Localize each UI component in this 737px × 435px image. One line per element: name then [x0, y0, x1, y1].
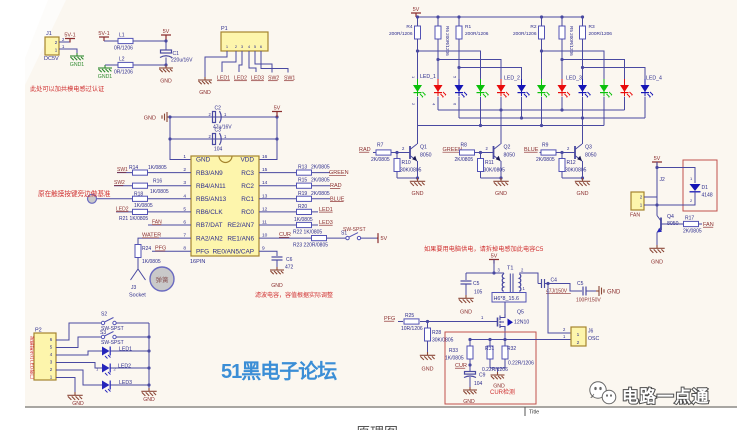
LED D2 — [434, 79, 447, 98]
svg-text:FAN: FAN — [630, 213, 640, 219]
svg-text:R24: R24 — [142, 246, 151, 252]
capacitor C4 47J/150V — [538, 278, 571, 295]
transformer T1 — [492, 266, 526, 303]
svg-text:R11: R11 — [485, 160, 494, 166]
svg-text:GND: GND — [144, 116, 156, 122]
wire LED5 cathode — [500, 97, 502, 144]
svg-text:GND: GND — [412, 191, 424, 197]
node CUR — [468, 363, 471, 366]
net label LED3 (P1) — [251, 76, 264, 82]
svg-text:RB3/AN9: RB3/AN9 — [196, 170, 223, 177]
wire T1 secondary to C4 — [519, 273, 538, 284]
svg-text:200R/1206: 200R/1206 — [465, 31, 489, 37]
resistor R31 0.22R/1206 — [485, 346, 494, 359]
ground GND (Q3) — [575, 178, 590, 197]
svg-text:0R/1206: 0R/1206 — [114, 70, 133, 76]
ground GND1 (at L2, green) — [98, 65, 113, 80]
net label LED1 (P1) — [217, 76, 230, 82]
wire anode column R6 — [437, 39, 439, 79]
wire R24 to socket — [137, 258, 139, 270]
svg-text:RC0: RC0 — [241, 209, 254, 216]
wire collector Q1 — [417, 143, 419, 145]
wire U1 pin6 (FAN) — [148, 224, 191, 226]
svg-text:原在触摸按键旁边做基准: 原在触摸按键旁边做基准 — [38, 189, 111, 198]
svg-text:RC2: RC2 — [241, 183, 254, 190]
svg-text:J1: J1 — [46, 31, 52, 37]
wire rail to R2 — [541, 17, 543, 26]
net label LED2 — [116, 206, 129, 212]
wire cathode bus line3 (to Q1) — [418, 125, 605, 127]
node rail R1 — [457, 15, 460, 18]
svg-text:Q1: Q1 — [420, 145, 427, 151]
ground GND (Q2) — [493, 178, 508, 197]
svg-text:8050: 8050 — [504, 153, 516, 159]
wire LED7 cathode — [541, 97, 543, 126]
svg-text:电路一点通: 电路一点通 — [622, 386, 710, 406]
touch spring (弹簧) — [150, 267, 174, 291]
wire R28 top/bottom — [427, 322, 429, 329]
ground GND (C5b, right facing) — [596, 286, 621, 296]
svg-text:R3: R3 — [589, 24, 595, 30]
svg-text:VDD: VDD — [241, 157, 255, 164]
connector J2 FAN — [630, 192, 644, 219]
svg-text:L1: L1 — [119, 33, 125, 39]
svg-text:Title: Title — [529, 410, 539, 416]
svg-text:2K/0805: 2K/0805 — [311, 178, 330, 184]
svg-text:R4: R4 — [406, 24, 412, 30]
svg-text:C4: C4 — [551, 278, 558, 284]
wire U1 pin10 (CUR) to switch — [259, 237, 346, 239]
wire U1 pin2 (SW1) — [117, 172, 191, 174]
wire P1 pin2 to LED1 — [222, 51, 236, 72]
wire 5V-1 to L1 — [104, 40, 118, 42]
svg-text:原理图: 原理图 — [356, 425, 398, 431]
wire P2 pin2 to LED3 — [56, 370, 102, 385]
net label SW1 (P1) — [284, 76, 295, 82]
node cathode junction — [499, 108, 502, 111]
svg-text:GND1: GND1 — [98, 74, 113, 80]
wire R10 top — [396, 153, 398, 159]
node rail R3 — [581, 15, 584, 18]
op-amp U1 (MCU 16PIN) — [190, 156, 259, 265]
wire anode column R5 — [561, 39, 563, 79]
wire L2 to GND node — [133, 64, 166, 66]
svg-text:GND: GND — [196, 157, 211, 164]
wire right vertical to pin16 — [259, 117, 277, 160]
resistor R28 30K/0805 — [425, 328, 454, 344]
wire anode column R2 — [541, 39, 543, 79]
resistor R6 200R/1206 — [435, 26, 450, 56]
svg-text:LED2: LED2 — [118, 364, 131, 370]
net label RAD — [330, 183, 342, 189]
wire U1 pin7 (WATER) to R24 — [138, 238, 191, 245]
capacitor C1 220u/16V — [160, 50, 193, 64]
wire C4 node down to J6 — [546, 282, 549, 285]
svg-text:弹簧: 弹簧 — [156, 275, 170, 284]
node gate/R28 — [426, 320, 429, 323]
wire emitter to ground — [417, 161, 419, 178]
net label SW2 (P1) — [268, 76, 279, 82]
title block tick — [524, 407, 526, 416]
resistor R16 1K/0805 — [133, 179, 169, 196]
wire C3 row — [170, 138, 277, 140]
wire cathode bus line1 (to Q2) — [438, 109, 625, 111]
resistor R13 2K/0805 — [297, 165, 330, 176]
svg-text:R13: R13 — [298, 165, 307, 171]
ground GND1 (at J1, green) — [70, 53, 85, 68]
svg-text:S3: S3 — [100, 330, 106, 336]
node Q5 source — [503, 338, 506, 341]
svg-text:2K/0805: 2K/0805 — [311, 165, 330, 171]
net label BLUE — [330, 196, 345, 202]
svg-text:R33: R33 — [449, 348, 458, 354]
wire U1 pin15 (GREEN) — [259, 172, 330, 174]
svg-text:2K/0805: 2K/0805 — [455, 157, 474, 163]
svg-text:R2: R2 — [530, 24, 536, 30]
svg-text:J6: J6 — [588, 329, 594, 335]
wire 5V to T1 — [466, 272, 504, 274]
node R31 top — [488, 338, 491, 341]
wire sense gnd stem — [497, 368, 499, 372]
wire LED4 cathode — [480, 97, 482, 126]
svg-text:RB4/AN11: RB4/AN11 — [196, 183, 226, 190]
svg-text:L2: L2 — [119, 57, 125, 63]
wire Q4 emitter to ground — [656, 233, 658, 246]
power 5V (right of S1) — [377, 233, 388, 243]
wire U1 pin4 (touch pad) — [96, 198, 191, 200]
svg-text:Q3: Q3 — [585, 145, 592, 151]
ground GND (C5) — [458, 295, 473, 316]
node: 5V/C1 junction — [164, 39, 167, 42]
wire anode segment R5 — [562, 60, 625, 80]
node anode seg R2 — [540, 49, 543, 52]
node anode seg R1 — [457, 66, 460, 69]
wire rail to R3 — [582, 17, 584, 26]
svg-text:5V: 5V — [274, 106, 281, 112]
resistor R14 1K/0805 — [129, 165, 167, 175]
power 5V-1 (at L1) — [98, 31, 109, 41]
wire emitter to ground — [500, 161, 502, 178]
svg-text:R8: R8 — [461, 143, 468, 149]
wires R31/R32 stubs — [489, 340, 491, 347]
wire U1 pin14 (RAD) — [259, 185, 330, 187]
switch S3 SW-SPST — [100, 330, 124, 346]
net label PFG (SMPS) — [384, 316, 395, 322]
power 5V (FAN) — [652, 156, 662, 166]
capacitor C5 100P/150V — [576, 281, 601, 304]
svg-text:J2: J2 — [660, 177, 666, 183]
LED1 (P2) — [102, 347, 111, 359]
wire C9 to ground — [469, 377, 471, 387]
svg-text:5V: 5V — [163, 29, 170, 35]
wire diode branch bottom — [657, 192, 695, 205]
svg-text:RC1: RC1 — [241, 196, 254, 203]
connector J3 Socket — [129, 268, 146, 299]
svg-text:5V-1: 5V-1 — [64, 33, 75, 39]
net label CUR — [279, 232, 291, 238]
resistor R19 2K/0805 — [297, 191, 330, 202]
svg-text:R22 1K/0805: R22 1K/0805 — [293, 230, 322, 236]
node bus LED1 — [147, 349, 150, 352]
svg-text:RA2/AN2: RA2/AN2 — [196, 235, 223, 242]
net label FAN (Q4) — [703, 222, 714, 228]
node rail R2 — [540, 15, 543, 18]
wire anode segment R6 — [438, 60, 501, 80]
wire P1 pin3 to LED2 — [239, 51, 242, 72]
connector P1 — [221, 26, 268, 51]
net label WATER — [142, 233, 161, 239]
diode D1 4148 — [690, 176, 713, 203]
svg-text:1K/0805: 1K/0805 — [142, 259, 161, 265]
wire collector Q2 — [500, 143, 502, 145]
wire rail to R6 — [437, 17, 439, 26]
svg-text:30K/0805: 30K/0805 — [432, 338, 454, 344]
wire R33 top stub — [469, 340, 471, 347]
wire PFG to gate — [398, 321, 403, 323]
wire anode segment R4 — [418, 51, 481, 79]
resistor R17 2K/0805 — [683, 216, 702, 235]
wire C6 to ground — [276, 260, 278, 267]
resistor R2 200R/1206 — [513, 24, 544, 39]
svg-text:Q4: Q4 — [667, 214, 674, 220]
resistor R18 1K/0805 — [133, 191, 153, 209]
svg-text:1K/0805: 1K/0805 — [148, 165, 167, 171]
node bus LED3 — [147, 383, 150, 386]
svg-text:8050: 8050 — [585, 153, 597, 159]
rectangle: CUR detect box — [445, 332, 536, 404]
wire emitter to ground — [582, 161, 584, 178]
node anode seg R6 — [436, 58, 439, 61]
wire C5 to ground — [465, 284, 467, 295]
inductor L2 0R/1206 — [114, 57, 133, 76]
svg-text:R5 200R/1206: R5 200R/1206 — [569, 26, 574, 56]
svg-text:LED_4: LED_4 — [646, 76, 662, 82]
wire C2 row — [170, 116, 277, 118]
wire LED2 to bus — [111, 367, 150, 369]
svg-text:R28: R28 — [432, 330, 441, 336]
svg-text:GND: GND — [607, 290, 621, 296]
node emitter/pulldown — [499, 176, 502, 179]
wire J2 pin2 — [644, 196, 657, 198]
svg-text:R14: R14 — [129, 165, 138, 171]
svg-text:5V: 5V — [491, 254, 498, 260]
transistor Q5 12N10 MOSFET — [498, 310, 530, 331]
net label CUR (sense) — [455, 363, 467, 369]
wire T1 to Q5 drain — [504, 302, 506, 314]
wire C5b to ground — [586, 290, 596, 292]
resistor R22 1K/0805 — [293, 222, 322, 235]
wire P1 pin5 to SW2 — [255, 51, 272, 73]
LED D12 — [641, 79, 654, 98]
svg-text:R17: R17 — [685, 216, 694, 222]
node cathode junction — [540, 124, 543, 127]
wire U1 pin11 (LED3) — [259, 224, 318, 226]
svg-text:GND: GND — [72, 401, 84, 407]
svg-text:R7: R7 — [377, 143, 384, 149]
svg-text:GND: GND — [143, 397, 155, 403]
transistor Q2 8050 — [494, 144, 516, 161]
wire rail to R1 — [458, 17, 460, 26]
switch S2 SW-SPST — [101, 312, 124, 333]
svg-text:R10: R10 — [402, 160, 411, 166]
svg-text:30K/0805: 30K/0805 — [565, 168, 587, 174]
node anode seg R3 — [581, 66, 584, 69]
svg-text:RC3: RC3 — [241, 170, 254, 177]
wire P2 pin6 to S2 — [56, 323, 101, 340]
svg-text:C2: C2 — [215, 106, 222, 112]
node cathode junction — [479, 124, 482, 127]
ground GND (Q1) — [410, 178, 425, 197]
wire LED10 cathode — [603, 97, 605, 126]
wire U1 pin13 (BLUE) — [259, 198, 330, 200]
node J2/diode — [655, 203, 658, 206]
node rail R4 — [416, 15, 419, 18]
node R33 top — [468, 338, 471, 341]
svg-text:RB6/CLK: RB6/CLK — [196, 209, 223, 216]
net label PFG — [155, 246, 166, 252]
wire collector Q3 — [582, 143, 584, 145]
node 5V fan — [655, 166, 658, 169]
wire rail to R4 — [417, 17, 419, 26]
LED D5 — [497, 79, 510, 98]
net label LED3 — [319, 220, 333, 226]
wire P1 pin4 to LED3 — [249, 51, 256, 72]
svg-text:30K/0805: 30K/0805 — [400, 168, 422, 174]
wire S3 to bus — [116, 336, 149, 338]
wire U1 pin5 (LED2) — [116, 211, 191, 213]
wire diode branch top — [657, 168, 695, 184]
svg-text:D1: D1 — [702, 185, 709, 191]
svg-text:C5: C5 — [577, 281, 584, 287]
resistor R5 200R/1206 — [559, 26, 574, 56]
svg-text:2K/0805: 2K/0805 — [536, 157, 555, 163]
ground GND (below C1) — [159, 65, 173, 85]
svg-text:30K/0805: 30K/0805 — [484, 168, 506, 174]
svg-text:104: 104 — [474, 381, 483, 387]
svg-text:0.22R/1206: 0.22R/1206 — [508, 361, 534, 367]
capacitor C5 105 — [461, 281, 483, 296]
svg-text:DC5V: DC5V — [44, 56, 59, 62]
node base junction — [479, 151, 482, 154]
resistor R11 30K/0805 — [478, 159, 506, 174]
LED3 (P2) — [102, 381, 111, 393]
resistor R15 2K/0805 — [297, 178, 330, 189]
wire L1 to 5V node — [133, 40, 166, 42]
power 5V (above C1) — [161, 29, 171, 41]
svg-text:GND: GND — [577, 191, 589, 197]
svg-text:GND: GND — [160, 79, 172, 85]
svg-text:Q2: Q2 — [504, 145, 511, 151]
net label SW1 — [117, 167, 128, 173]
svg-text:R1: R1 — [465, 24, 471, 30]
wire anode column R4 — [417, 39, 419, 79]
wire LED9 cathode — [582, 97, 584, 144]
wire BLUE to R9 — [540, 152, 542, 154]
svg-text:P1: P1 — [221, 26, 228, 32]
svg-text:R31: R31 — [485, 346, 494, 352]
ground GND (below C6) — [270, 267, 284, 289]
connector P2 — [34, 328, 56, 381]
wire S2 to bus — [116, 322, 149, 324]
node emitter/pulldown — [581, 176, 584, 179]
resistor R25 10R/1206 — [401, 313, 423, 332]
svg-text:200R/1206: 200R/1206 — [589, 31, 613, 37]
svg-text:GND1: GND1 — [70, 62, 85, 68]
power 5V (LED rail) — [411, 7, 421, 17]
wire P1 pin1 to GND — [205, 51, 227, 77]
svg-text:H6*8_15.6: H6*8_15.6 — [494, 296, 519, 302]
svg-text:C1: C1 — [173, 51, 180, 57]
svg-text:GND: GND — [199, 90, 211, 96]
svg-text:GND: GND — [463, 399, 475, 405]
watermark logo 电路一点通 — [590, 382, 710, 406]
svg-text:1: 1 — [183, 154, 186, 160]
svg-text:R16: R16 — [153, 179, 162, 185]
wire Q5 source down — [504, 330, 506, 340]
wire C1 to GND node — [165, 58, 167, 66]
ground GND (R31/R32) — [491, 372, 506, 390]
ground GND (C9) — [463, 387, 477, 405]
LED D11 — [620, 79, 633, 98]
svg-text:GND: GND — [271, 283, 283, 289]
svg-text:5V: 5V — [381, 236, 388, 242]
wire LED1 cathode — [417, 97, 419, 144]
capacitor C3 104 — [209, 128, 228, 153]
wire Q4 base to R17 — [661, 223, 684, 225]
LED D3 — [455, 79, 468, 98]
svg-text:RB5/AN13: RB5/AN13 — [196, 196, 227, 203]
svg-text:1K/0805: 1K/0805 — [445, 356, 464, 362]
power 5V-1 (at J1) — [64, 33, 75, 43]
svg-text:C3: C3 — [215, 128, 222, 134]
inductor L1 0R/1206 — [114, 33, 133, 52]
transistor Q1 8050 — [410, 144, 432, 161]
svg-text:R15: R15 — [298, 178, 307, 184]
svg-text:200R/1206: 200R/1206 — [389, 31, 413, 37]
svg-text:GND: GND — [495, 191, 507, 197]
node anode seg R4 — [416, 49, 419, 52]
capacitor C9 104 — [464, 372, 486, 388]
LED D6 — [517, 79, 530, 98]
wire C4 to C5b — [548, 284, 582, 292]
svg-text:LED_3: LED_3 — [566, 76, 582, 82]
svg-text:R6 200R/1206: R6 200R/1206 — [445, 26, 450, 56]
node C2 right — [275, 115, 278, 118]
svg-text:OSC: OSC — [588, 336, 599, 342]
wire 5V vertical to Q4 — [656, 162, 658, 212]
node touch pad circle — [88, 194, 97, 203]
transistor Q3 8050 — [575, 144, 597, 161]
wire anode column R3 — [582, 39, 584, 79]
svg-text:GND: GND — [651, 260, 663, 266]
svg-text:4148: 4148 — [702, 193, 713, 199]
ground GND (R28) — [420, 352, 435, 373]
power 5V (above C2 right) — [272, 106, 282, 118]
node anode seg R5 — [560, 58, 563, 61]
svg-text:12N10: 12N10 — [514, 320, 529, 326]
svg-text:GND: GND — [422, 367, 434, 373]
wire down to C1 — [165, 41, 167, 50]
node 5V/T1 — [492, 271, 495, 274]
wire LED12 cathode — [644, 97, 646, 118]
capacitor C6 472 — [272, 257, 294, 271]
svg-text:R23 220R/0805: R23 220R/0805 — [293, 243, 328, 249]
wire P2 pin5 to S3 — [56, 337, 101, 348]
wire LED6 cathode — [521, 97, 523, 118]
net label BLUE — [524, 147, 539, 153]
LED2 (P2) — [102, 364, 111, 376]
node bus LED2 — [147, 366, 150, 369]
